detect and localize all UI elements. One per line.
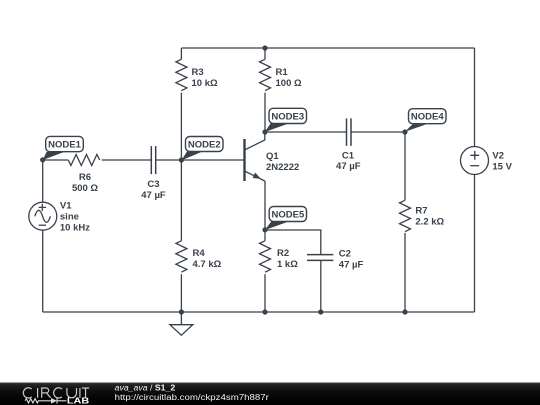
wire R3 top xyxy=(180,48,182,59)
node junction C2 bottom xyxy=(318,309,323,314)
svg-text:NODE1: NODE1 xyxy=(48,140,81,151)
svg-text:NODE4: NODE4 xyxy=(411,112,444,123)
svg-text:1 kΩ: 1 kΩ xyxy=(277,259,298,270)
svg-text:100 Ω: 100 Ω xyxy=(276,78,302,89)
CircuitLab logo second row: resistor, diode, LAB xyxy=(25,397,89,405)
node junction R2 bottom xyxy=(262,309,267,314)
wire node4 to R7 xyxy=(404,132,406,200)
svg-text:R7: R7 xyxy=(415,206,427,217)
wire top rail xyxy=(181,47,474,49)
svg-text:V1: V1 xyxy=(60,201,72,212)
wire node3 to C1 xyxy=(265,131,346,133)
svg-text:NODE2: NODE2 xyxy=(188,140,221,151)
wire R6 to C3 xyxy=(102,159,151,161)
svg-text:500 Ω: 500 Ω xyxy=(72,183,98,194)
resistor R3 10 kOhm xyxy=(176,59,218,90)
svg-text:LAB: LAB xyxy=(67,397,90,405)
svg-text:R6: R6 xyxy=(79,172,91,183)
wire left rail upper xyxy=(42,160,44,202)
node NODE5 xyxy=(262,207,306,233)
svg-text:15 V: 15 V xyxy=(492,162,512,173)
resistor R7 2.2 kOhm xyxy=(400,200,445,231)
resistor R6 500 Ohm xyxy=(68,155,99,195)
svg-text:2N2222: 2N2222 xyxy=(266,162,299,173)
svg-text:R3: R3 xyxy=(192,67,204,78)
transistor Q1 2N2222 xyxy=(245,132,300,181)
svg-text:http://circuitlab.com/ckpz4sm7: http://circuitlab.com/ckpz4sm7h887r xyxy=(115,393,270,402)
capacitor C1 47 uF xyxy=(336,118,361,171)
wire node1 to R6 xyxy=(43,159,69,161)
wire base node2 to Q1 xyxy=(181,159,244,161)
svg-text:Q1: Q1 xyxy=(266,151,279,162)
svg-text:10 kΩ: 10 kΩ xyxy=(192,78,218,89)
wire C3 to node2 xyxy=(156,159,181,161)
node NODE3 xyxy=(262,108,306,134)
svg-text:C3: C3 xyxy=(147,179,159,190)
resistor R2 1 kOhm xyxy=(260,241,299,272)
svg-text:47 µF: 47 µF xyxy=(339,259,364,270)
node A junction top rail xyxy=(262,45,267,50)
capacitor C3 47 uF xyxy=(141,146,166,201)
node junction R7 bottom xyxy=(402,309,407,314)
svg-text:R2: R2 xyxy=(277,248,289,259)
resistor R4 4.7 kOhm xyxy=(176,241,222,272)
svg-text:4.7 kΩ: 4.7 kΩ xyxy=(193,259,222,270)
svg-text:R4: R4 xyxy=(193,248,206,259)
svg-text:R1: R1 xyxy=(276,67,289,78)
footer credit text xyxy=(115,384,270,402)
svg-text:ava_ava / S1_2: ava_ava / S1_2 xyxy=(115,384,176,393)
wire bottom rail xyxy=(43,311,475,313)
wire R2 to bottom rail xyxy=(264,274,266,312)
voltage source V1 sine xyxy=(29,201,90,234)
ground xyxy=(170,312,193,335)
wire right rail lower xyxy=(474,175,476,312)
node NODE4 xyxy=(402,109,446,135)
node junction ground xyxy=(179,309,184,314)
wire R7 to bottom rail xyxy=(404,233,406,312)
svg-text:47 µF: 47 µF xyxy=(336,161,361,172)
svg-text:10 kHz: 10 kHz xyxy=(60,223,90,234)
resistor R1 100 Ohm xyxy=(260,59,302,90)
wire R3 bottom to node2 xyxy=(180,93,182,160)
wire left rail lower xyxy=(42,230,44,312)
wire C2 to bottom rail xyxy=(320,261,322,312)
voltage source V2 15V xyxy=(461,147,513,175)
wire node5 to C2 xyxy=(265,230,321,254)
node NODE1 xyxy=(40,136,83,162)
wire R1 bottom to node3 xyxy=(264,93,266,132)
capacitor C2 47 uF xyxy=(307,248,363,270)
wire R4 to bottom rail xyxy=(180,274,182,312)
svg-text:2.2 kΩ: 2.2 kΩ xyxy=(415,216,444,227)
wire right rail upper xyxy=(474,48,476,147)
wire C1 to node4 xyxy=(352,131,406,133)
svg-text:NODE3: NODE3 xyxy=(271,112,304,123)
wire emitter to node5 xyxy=(264,181,266,230)
svg-text:C2: C2 xyxy=(339,248,351,259)
svg-text:V2: V2 xyxy=(492,151,504,162)
wire node2 to R4 xyxy=(180,160,182,241)
CircuitLab logo xyxy=(23,388,89,398)
svg-text:NODE5: NODE5 xyxy=(272,210,305,221)
svg-text:47 µF: 47 µF xyxy=(141,190,166,201)
wire node5 to R2 xyxy=(264,230,266,241)
wire R1 top xyxy=(264,48,266,59)
node NODE2 xyxy=(179,137,223,163)
footer bar xyxy=(0,383,540,405)
svg-text:sine: sine xyxy=(60,212,79,223)
